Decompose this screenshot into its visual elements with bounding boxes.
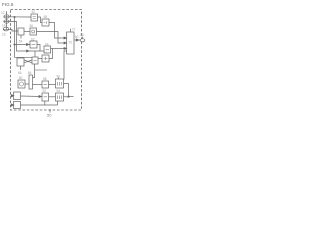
wire G to block in3 (51, 48, 65, 50)
glyph I circle (20, 82, 24, 86)
wire K to R2 (49, 96, 56, 98)
junction phase1 lower (14, 44, 15, 45)
terminal T1 lead (6, 11, 8, 29)
wire X to Y (38, 58, 42, 60)
svg-text:60: 60 (75, 35, 79, 39)
svg-text:54: 54 (19, 40, 23, 44)
box G (64) (44, 46, 51, 53)
arrowhead on phase2 line (27, 50, 30, 52)
wire phase2 down to G (4, 22, 44, 52)
arrowhead block in1 (64, 37, 67, 39)
glyph X (34, 60, 37, 62)
glyph J (44, 84, 48, 86)
svg-text:56: 56 (30, 24, 34, 28)
wire M clock line (21, 104, 58, 106)
crossed wires H to bar X (24, 60, 32, 63)
output terminal (80, 39, 85, 42)
block in4 stub from below (64, 51, 67, 79)
box H (66) (17, 58, 24, 66)
box E (58) (42, 19, 49, 26)
svg-text:52: 52 (32, 10, 36, 14)
output terminal label leader (81, 37, 83, 39)
junction phase1 (14, 16, 15, 17)
box J (88) (42, 81, 49, 88)
dashed enclosure border 50 (11, 10, 82, 111)
wire phase1 branch down (15, 17, 31, 45)
block top stub (70, 29, 72, 32)
svg-text:90: 90 (57, 75, 61, 79)
wire X down to bar2 (33, 64, 35, 78)
svg-text:74: 74 (44, 51, 48, 55)
junction R outputs (68, 96, 69, 97)
glyph A (33, 17, 37, 19)
arrowhead block in2 (64, 42, 67, 44)
svg-text:FIG.5: FIG.5 (2, 2, 14, 7)
wire junction right (69, 96, 74, 98)
input terminal T1 (4, 15, 9, 18)
bar2 (86) (29, 75, 33, 89)
svg-text:94: 94 (57, 89, 61, 93)
glyph E (44, 21, 47, 24)
wire Y up to in3 line (49, 49, 53, 59)
svg-text:62: 62 (31, 37, 35, 41)
wire phase1 down to bar X (15, 45, 33, 58)
wire C to D (24, 31, 30, 33)
box K (92) (42, 93, 49, 101)
wire L to K (21, 95, 43, 98)
output arrowhead (76, 39, 79, 41)
wire D to block in2 (37, 32, 65, 44)
leader line 76 (35, 69, 47, 71)
box F (62) (30, 41, 37, 48)
wire phase3 to box C (3, 29, 18, 31)
box L (82) (14, 92, 21, 100)
svg-text:18: 18 (80, 33, 84, 37)
glyph R1 (58, 82, 62, 86)
svg-text:86: 86 (28, 71, 32, 75)
svg-text:92: 92 (43, 89, 47, 93)
box I oscillator (80) (18, 80, 25, 88)
svg-text:58: 58 (44, 15, 48, 19)
svg-text:12: 12 (1, 11, 5, 15)
box R1 flip-flop (90) (56, 79, 64, 88)
box X (68) (32, 57, 38, 64)
svg-text:14: 14 (2, 24, 6, 28)
arrowhead into K (39, 95, 42, 97)
wire I to bar2 (25, 83, 29, 85)
box C (sensor 54) (18, 28, 24, 35)
glyph Y (44, 57, 48, 60)
svg-text:72: 72 (72, 28, 76, 32)
input terminal T2 (4, 20, 9, 23)
clock stub to R2 (57, 101, 59, 105)
wire R2 out to junction (64, 96, 69, 98)
glyph R2 (58, 96, 62, 100)
arrowhead into M (11, 104, 14, 106)
clock stub to K (44, 101, 46, 105)
box R2 flip-flop (94) (56, 93, 64, 101)
box X top stub (34, 51, 36, 57)
bottom leader line to numeral 50 (49, 109, 51, 113)
svg-text:70: 70 (68, 40, 72, 44)
arrowhead into L (11, 95, 14, 97)
wire J to R1 (49, 84, 56, 86)
glyph F (32, 44, 36, 46)
box M (84) (14, 102, 21, 109)
wire F out joins phase2 line (37, 45, 40, 52)
glyph G (46, 49, 50, 51)
wire phase1 to box A (4, 16, 31, 18)
svg-text:66: 66 (18, 71, 22, 75)
glyph K (44, 96, 48, 98)
box Y (74) (42, 55, 49, 62)
arrowhead block in3 (64, 48, 67, 50)
box C stub (20, 35, 22, 39)
arrow into L (11, 95, 14, 97)
svg-text:64: 64 (45, 42, 49, 46)
box A (filter 52) (31, 14, 38, 21)
wire E to block in1 (49, 23, 64, 39)
svg-text:88: 88 (43, 77, 47, 81)
box D (detector 56) (30, 28, 37, 35)
svg-text:16: 16 (2, 33, 6, 37)
wire bar2 to J (33, 84, 43, 86)
arrow into M (11, 104, 14, 106)
wire R1 out down (64, 84, 69, 97)
svg-text:50: 50 (47, 113, 52, 118)
comparator block 70 (67, 32, 75, 54)
glyph D circle (32, 30, 35, 33)
box H stub (20, 66, 22, 70)
input terminal T3 (3, 27, 9, 31)
svg-text:80: 80 (19, 76, 23, 80)
wire A to E (38, 17, 43, 23)
block output wire (74, 39, 80, 41)
arrowhead into F (27, 44, 30, 46)
label 90 leader (58, 78, 60, 80)
